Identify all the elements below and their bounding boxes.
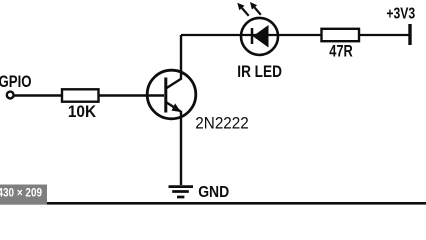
svg-text:GND: GND bbox=[198, 184, 229, 201]
svg-text:GPIO: GPIO bbox=[0, 73, 32, 91]
svg-text:IR LED: IR LED bbox=[237, 63, 282, 81]
svg-text:47R: 47R bbox=[329, 43, 353, 61]
svg-text:430 × 209: 430 × 209 bbox=[0, 186, 42, 200]
svg-text:2N2222: 2N2222 bbox=[195, 114, 249, 133]
svg-text:10K: 10K bbox=[68, 103, 96, 121]
svg-text:+3V3: +3V3 bbox=[386, 5, 415, 22]
